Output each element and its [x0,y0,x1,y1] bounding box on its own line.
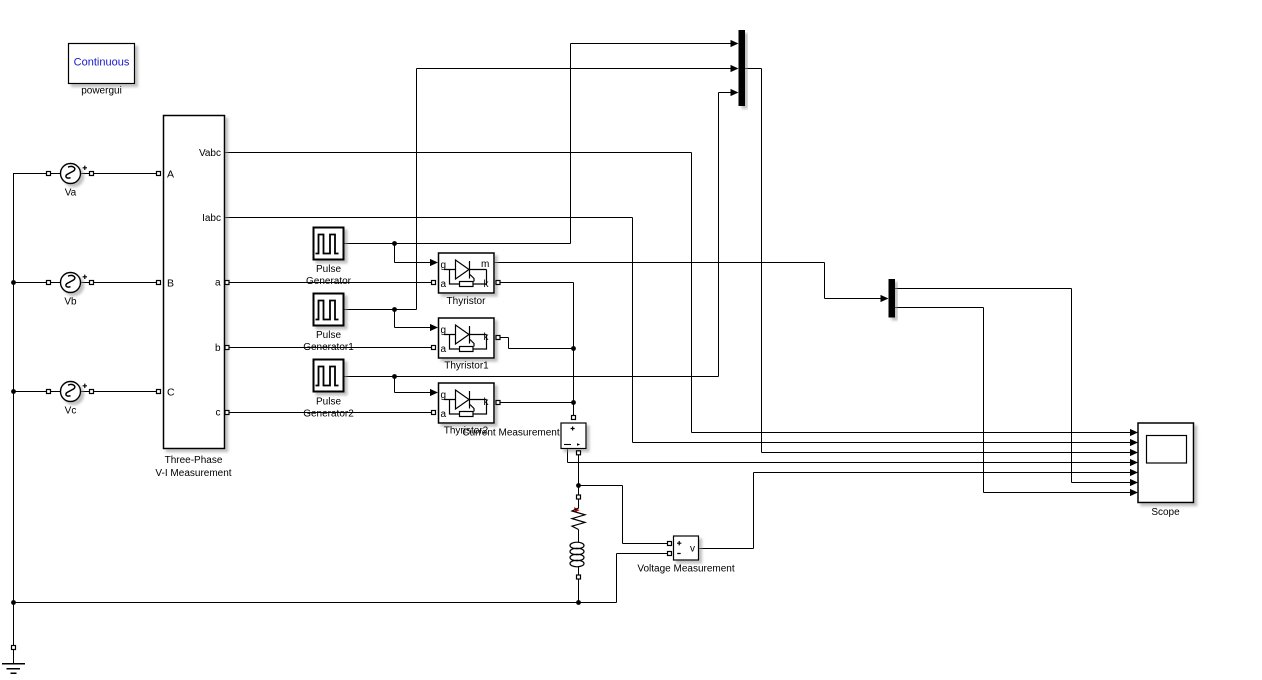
svg-text:Generator: Generator [306,276,352,287]
svg-text:Pulse: Pulse [316,264,341,275]
svg-text:b: b [215,343,221,354]
svg-text:Pulse: Pulse [316,397,341,408]
svg-text:a: a [215,278,221,289]
svg-text:a: a [441,279,447,290]
svg-text:Continuous: Continuous [74,57,130,69]
svg-text:Thyristor1: Thyristor1 [444,361,489,372]
svg-text:g: g [441,260,447,271]
svg-text:Pulse: Pulse [316,330,341,341]
svg-text:Current Measurement: Current Measurement [462,428,559,439]
svg-text:V-I Measurement: V-I Measurement [155,468,231,479]
svg-text:Generator2: Generator2 [303,409,354,420]
svg-text:B: B [167,278,174,290]
svg-text:Iabc: Iabc [202,213,221,224]
svg-text:g: g [441,390,447,401]
svg-text:Vabc: Vabc [199,148,221,159]
svg-text:v: v [690,544,695,555]
svg-text:g: g [441,325,447,336]
svg-text:A: A [167,169,174,181]
svg-text:a: a [441,344,447,355]
svg-text:Three-Phase: Three-Phase [165,455,223,466]
svg-text:Vb: Vb [64,297,77,308]
svg-text:Scope: Scope [1151,507,1180,518]
svg-text:m: m [481,259,489,270]
svg-text:Thyristor: Thyristor [447,296,487,307]
svg-text:c: c [216,408,221,419]
svg-text:Vc: Vc [65,406,77,417]
svg-text:Generator1: Generator1 [303,342,354,353]
svg-text:powergui: powergui [81,86,122,97]
svg-text:C: C [167,387,175,399]
svg-text:Va: Va [65,188,77,199]
svg-text:Voltage Measurement: Voltage Measurement [637,564,735,575]
svg-text:a: a [441,409,447,420]
